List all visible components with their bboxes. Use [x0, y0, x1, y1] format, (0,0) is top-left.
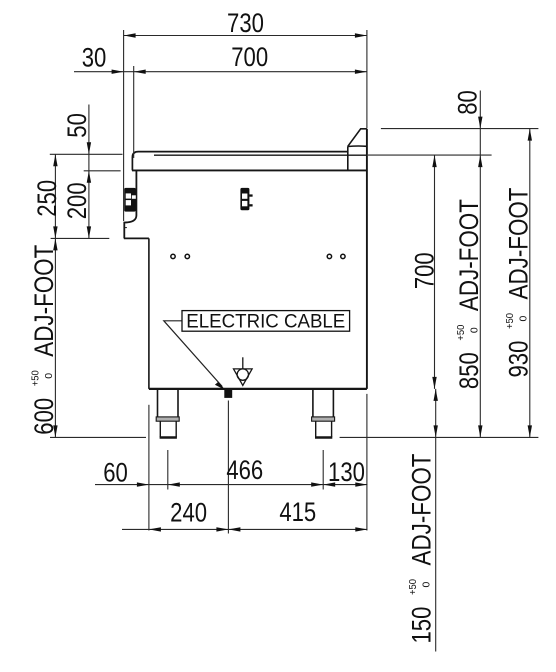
- label 200: [62, 182, 92, 219]
- body right edge: [366, 129, 368, 389]
- label 30: [82, 43, 107, 73]
- label 700 right: [410, 252, 440, 289]
- label 80: [453, 90, 483, 115]
- svg-text:150: 150: [406, 607, 436, 644]
- svg-text:415: 415: [279, 497, 316, 527]
- label 250: [32, 180, 62, 217]
- knob K1 on control panel: [124, 188, 136, 212]
- extension line y=238.4 left: [51, 237, 110, 239]
- wire worktop rim top and front bullnose: [132, 152, 347, 171]
- splash guard triangle: [348, 129, 367, 171]
- svg-text:0: 0: [43, 373, 55, 379]
- leader line to cable entry: [164, 321, 226, 390]
- svg-text:730: 730: [227, 8, 264, 38]
- extension line x=133.7 worktop front: [133, 66, 135, 158]
- extension line x=366.9 below body: [366, 394, 368, 531]
- label 150 +50 0 ADJ-FOOT: [406, 454, 436, 644]
- equipotential earth symbol: [234, 357, 253, 385]
- svg-text:466: 466: [226, 455, 263, 485]
- svg-text:ADJ-FOOT: ADJ-FOOT: [454, 199, 484, 311]
- label 700 top: [231, 42, 268, 72]
- floor line right: [340, 436, 539, 438]
- label box ELECTRIC CABLE: [182, 310, 350, 332]
- control panel profile: [124, 170, 149, 238]
- label 130: [328, 457, 365, 487]
- svg-text:ADJ-FOOT: ADJ-FOOT: [406, 454, 436, 566]
- label 50: [62, 113, 92, 138]
- svg-text:240: 240: [170, 497, 207, 527]
- svg-text:700: 700: [410, 252, 440, 289]
- svg-text:200: 200: [62, 182, 92, 219]
- dimension 250 600 vertical line: [53, 154, 57, 437]
- foot F2 right: [312, 389, 335, 438]
- svg-text:50: 50: [62, 113, 92, 138]
- extension line x=123.6 overall depth: [123, 30, 125, 221]
- label 415: [279, 497, 316, 527]
- electric cable entry square: [224, 390, 232, 398]
- label 930 +50 0 ADJ-FOOT: [503, 188, 533, 378]
- dimension 50 200 vertical line: [87, 105, 91, 239]
- svg-text:+50: +50: [455, 324, 467, 340]
- label 466: [226, 455, 263, 485]
- label 850 +50 0 ADJ-FOOT: [454, 199, 484, 389]
- label 730: [227, 8, 264, 38]
- svg-text:850: 850: [454, 352, 484, 389]
- svg-text:0: 0: [421, 582, 433, 588]
- extension line y=154.3 left: [50, 153, 123, 155]
- body lower front face: [148, 238, 150, 389]
- knob K2 mid body: [240, 188, 252, 210]
- svg-text:ELECTRIC CABLE: ELECTRIC CABLE: [186, 310, 345, 332]
- svg-text:60: 60: [103, 458, 128, 488]
- extension line x=366.9 above body: [366, 30, 368, 128]
- dimension 60 466 130 line: [95, 482, 367, 486]
- svg-text:80: 80: [453, 90, 483, 115]
- label 240: [170, 497, 207, 527]
- svg-text:0: 0: [518, 316, 530, 322]
- svg-text:250: 250: [32, 180, 62, 217]
- wire worktop underside: [132, 169, 367, 171]
- svg-text:ADJ-FOOT: ADJ-FOOT: [29, 245, 59, 357]
- extension line y=170.8 left: [84, 170, 121, 172]
- body bottom edge: [149, 388, 367, 390]
- svg-text:130: 130: [328, 457, 365, 487]
- svg-text:600: 600: [29, 398, 59, 435]
- dimension 240 415 line: [122, 527, 367, 531]
- screw holes left pair: [171, 254, 190, 258]
- label 60: [103, 458, 128, 488]
- svg-text:30: 30: [82, 43, 107, 73]
- svg-text:+50: +50: [504, 313, 516, 329]
- screw holes right pair: [327, 254, 345, 258]
- svg-text:930: 930: [503, 341, 533, 378]
- wire worktop surface line: [154, 154, 367, 156]
- extension line cable entry: [227, 401, 229, 534]
- dimension 700 and 30 line: [74, 70, 367, 74]
- label 600 +50 0 ADJ-FOOT: [29, 245, 59, 435]
- dimension 930 vertical line: [528, 129, 532, 438]
- dimension 700 right vertical line: [432, 155, 436, 389]
- svg-text:0: 0: [468, 327, 480, 333]
- dimension 150 vertical line: [434, 389, 438, 652]
- svg-text:+50: +50: [30, 370, 42, 386]
- extension line y=155.1 right surface: [368, 154, 492, 156]
- floor line left: [50, 436, 146, 438]
- svg-text:700: 700: [231, 42, 268, 72]
- dimension 80 850 vertical line: [478, 91, 482, 438]
- foot F1 left: [156, 389, 179, 438]
- extension line foot2 centre: [322, 450, 324, 490]
- extension line foot1 centre: [167, 450, 169, 490]
- dimension 730 line: [124, 33, 367, 37]
- extension line y=128.6 right splash top: [381, 128, 539, 130]
- extension line x=148.9 below body: [148, 405, 150, 531]
- svg-text:ADJ-FOOT: ADJ-FOOT: [503, 188, 533, 300]
- svg-text:+50: +50: [407, 579, 419, 595]
